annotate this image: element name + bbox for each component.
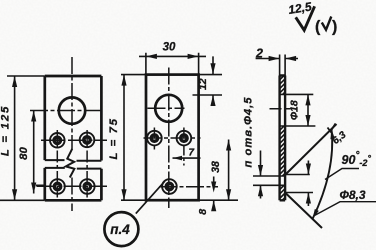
svg-text:п отв.Ф4,5: п отв.Ф4,5 [243,97,255,168]
countersunk hole (left view top-right) [80,133,95,148]
dimension 38 [228,140,230,201]
left view: plate L=125 [45,76,102,200]
dimension 7 [173,157,201,159]
balloon п.4 [104,212,138,246]
label Ф8,3 with shelf [315,202,376,216]
circle horizontal centerline [30,110,104,112]
dimension 80 [34,111,46,194]
break line upper [45,159,102,162]
hole row centerline [144,137,201,139]
break zigzag [66,149,75,178]
section hatching [280,76,286,201]
hole column centerline right [183,128,185,166]
dimension n отв. Ф4,5 [253,151,280,199]
countersunk hole (middle view top-left) [147,131,162,146]
vertical centerline [168,68,170,209]
hole edge lines in section [280,94,286,185]
top edge extension [121,74,222,76]
dimension Ф8,3 arrows [307,161,309,207]
svg-text:38: 38 [210,161,222,173]
hole column centerline left [153,128,155,150]
roughness 6,3 on chamfer [328,124,336,132]
bottom edge extension [121,199,238,201]
centerlines middle view [144,68,219,209]
svg-text:12: 12 [197,78,209,90]
bottom hole row centerline [159,186,218,188]
dimension L=125 [0,76,45,200]
leader for 90°-2° [325,169,359,180]
countersunk hole (middle view top-right) [177,131,192,146]
svg-text:7: 7 [189,147,195,158]
large hole circle (left view) [59,97,85,123]
dimension 30 [139,53,206,75]
balloon leader [136,181,165,213]
svg-text:2: 2 [255,47,263,61]
break line lower [45,167,102,170]
countersunk hole (left view bottom-right) [80,179,95,194]
svg-text:8: 8 [197,209,209,215]
svg-text:(: ( [315,19,321,36]
svg-text:): ) [332,19,337,36]
svg-text:30: 30 [163,42,176,54]
angle arc 90°-2° [313,129,333,219]
circle centerline in section [270,108,291,110]
middle view: plate L=75 [121,75,238,201]
plate outline (middle view) [146,75,199,201]
hole row centerline top [41,139,107,141]
roughness checkmark [296,6,315,30]
dimension 12 [193,56,223,103]
svg-text:п.4: п.4 [110,222,130,237]
svg-text:L = 125: L = 125 [0,105,12,156]
hole row centerline bottom [37,185,108,187]
plate outline (left view) [45,76,102,200]
hole column centerline right [86,130,88,198]
hole column centerline left [56,130,58,198]
circle horizontal centerline [148,107,185,109]
countersink mouth extension lines [286,175,314,193]
countersunk hole (left view bottom-left) [50,179,65,194]
dimension 2 (thickness) [256,55,298,76]
large hole circle (middle view) [155,95,182,122]
dimension Ф18 [285,94,315,126]
svg-text:Ф8,3: Ф8,3 [340,188,366,202]
countersink lower arm [286,193,323,228]
countersink upper arm [286,124,337,175]
svg-text:80: 80 [18,147,30,160]
section view strip [280,76,286,201]
svg-text:L = 75: L = 75 [108,117,120,159]
vertical centerline [71,57,73,211]
dimension L=75 [123,75,125,201]
countersunk hole (middle view bottom) [162,179,177,194]
dimension 8 [213,177,215,210]
svg-text:Ф18: Ф18 [289,100,301,120]
countersunk hole (left view top-left) [50,133,65,148]
centerlines left view [30,57,107,211]
